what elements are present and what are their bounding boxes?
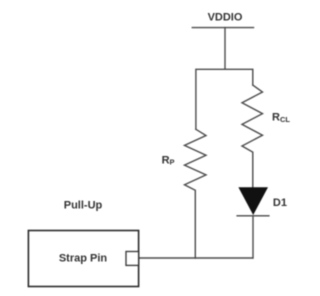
svg-text:RCL: RCL (272, 111, 290, 124)
svg-text:RP: RP (162, 155, 175, 167)
svg-text:VDDIO: VDDIO (208, 11, 243, 23)
svg-text:D1: D1 (273, 197, 287, 209)
svg-text:Pull-Up: Pull-Up (64, 199, 103, 211)
svg-text:Strap Pin: Strap Pin (59, 253, 108, 265)
